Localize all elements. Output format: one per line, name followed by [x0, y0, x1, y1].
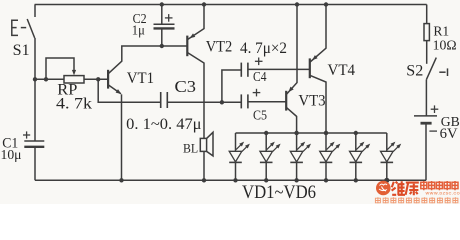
- svg-text:WWW.DZSC.COM: WWW.DZSC.COM: [426, 190, 460, 195]
- svg-text:VT1: VT1: [127, 70, 154, 87]
- svg-text:1μ: 1μ: [132, 23, 145, 38]
- svg-text:VT3: VT3: [298, 93, 325, 110]
- svg-text:VT4: VT4: [328, 62, 356, 79]
- svg-text:C5: C5: [253, 108, 267, 123]
- svg-text:BL: BL: [183, 141, 198, 156]
- svg-text:10μ: 10μ: [1, 148, 22, 163]
- svg-text:4. 7k: 4. 7k: [56, 96, 92, 113]
- svg-text:10Ω: 10Ω: [433, 39, 457, 54]
- svg-text:4. 7μ×2: 4. 7μ×2: [240, 40, 287, 57]
- svg-text:C3: C3: [175, 77, 197, 96]
- svg-text:VT2: VT2: [206, 39, 233, 56]
- svg-text:0. 1~0. 47μ: 0. 1~0. 47μ: [126, 116, 201, 133]
- svg-text:6V: 6V: [440, 126, 459, 142]
- svg-text:S2: S2: [406, 63, 423, 80]
- svg-text:R1: R1: [433, 25, 449, 40]
- svg-text:C4: C4: [253, 69, 267, 84]
- svg-text:VD1~VD6: VD1~VD6: [242, 183, 316, 203]
- svg-text:S1: S1: [13, 42, 30, 59]
